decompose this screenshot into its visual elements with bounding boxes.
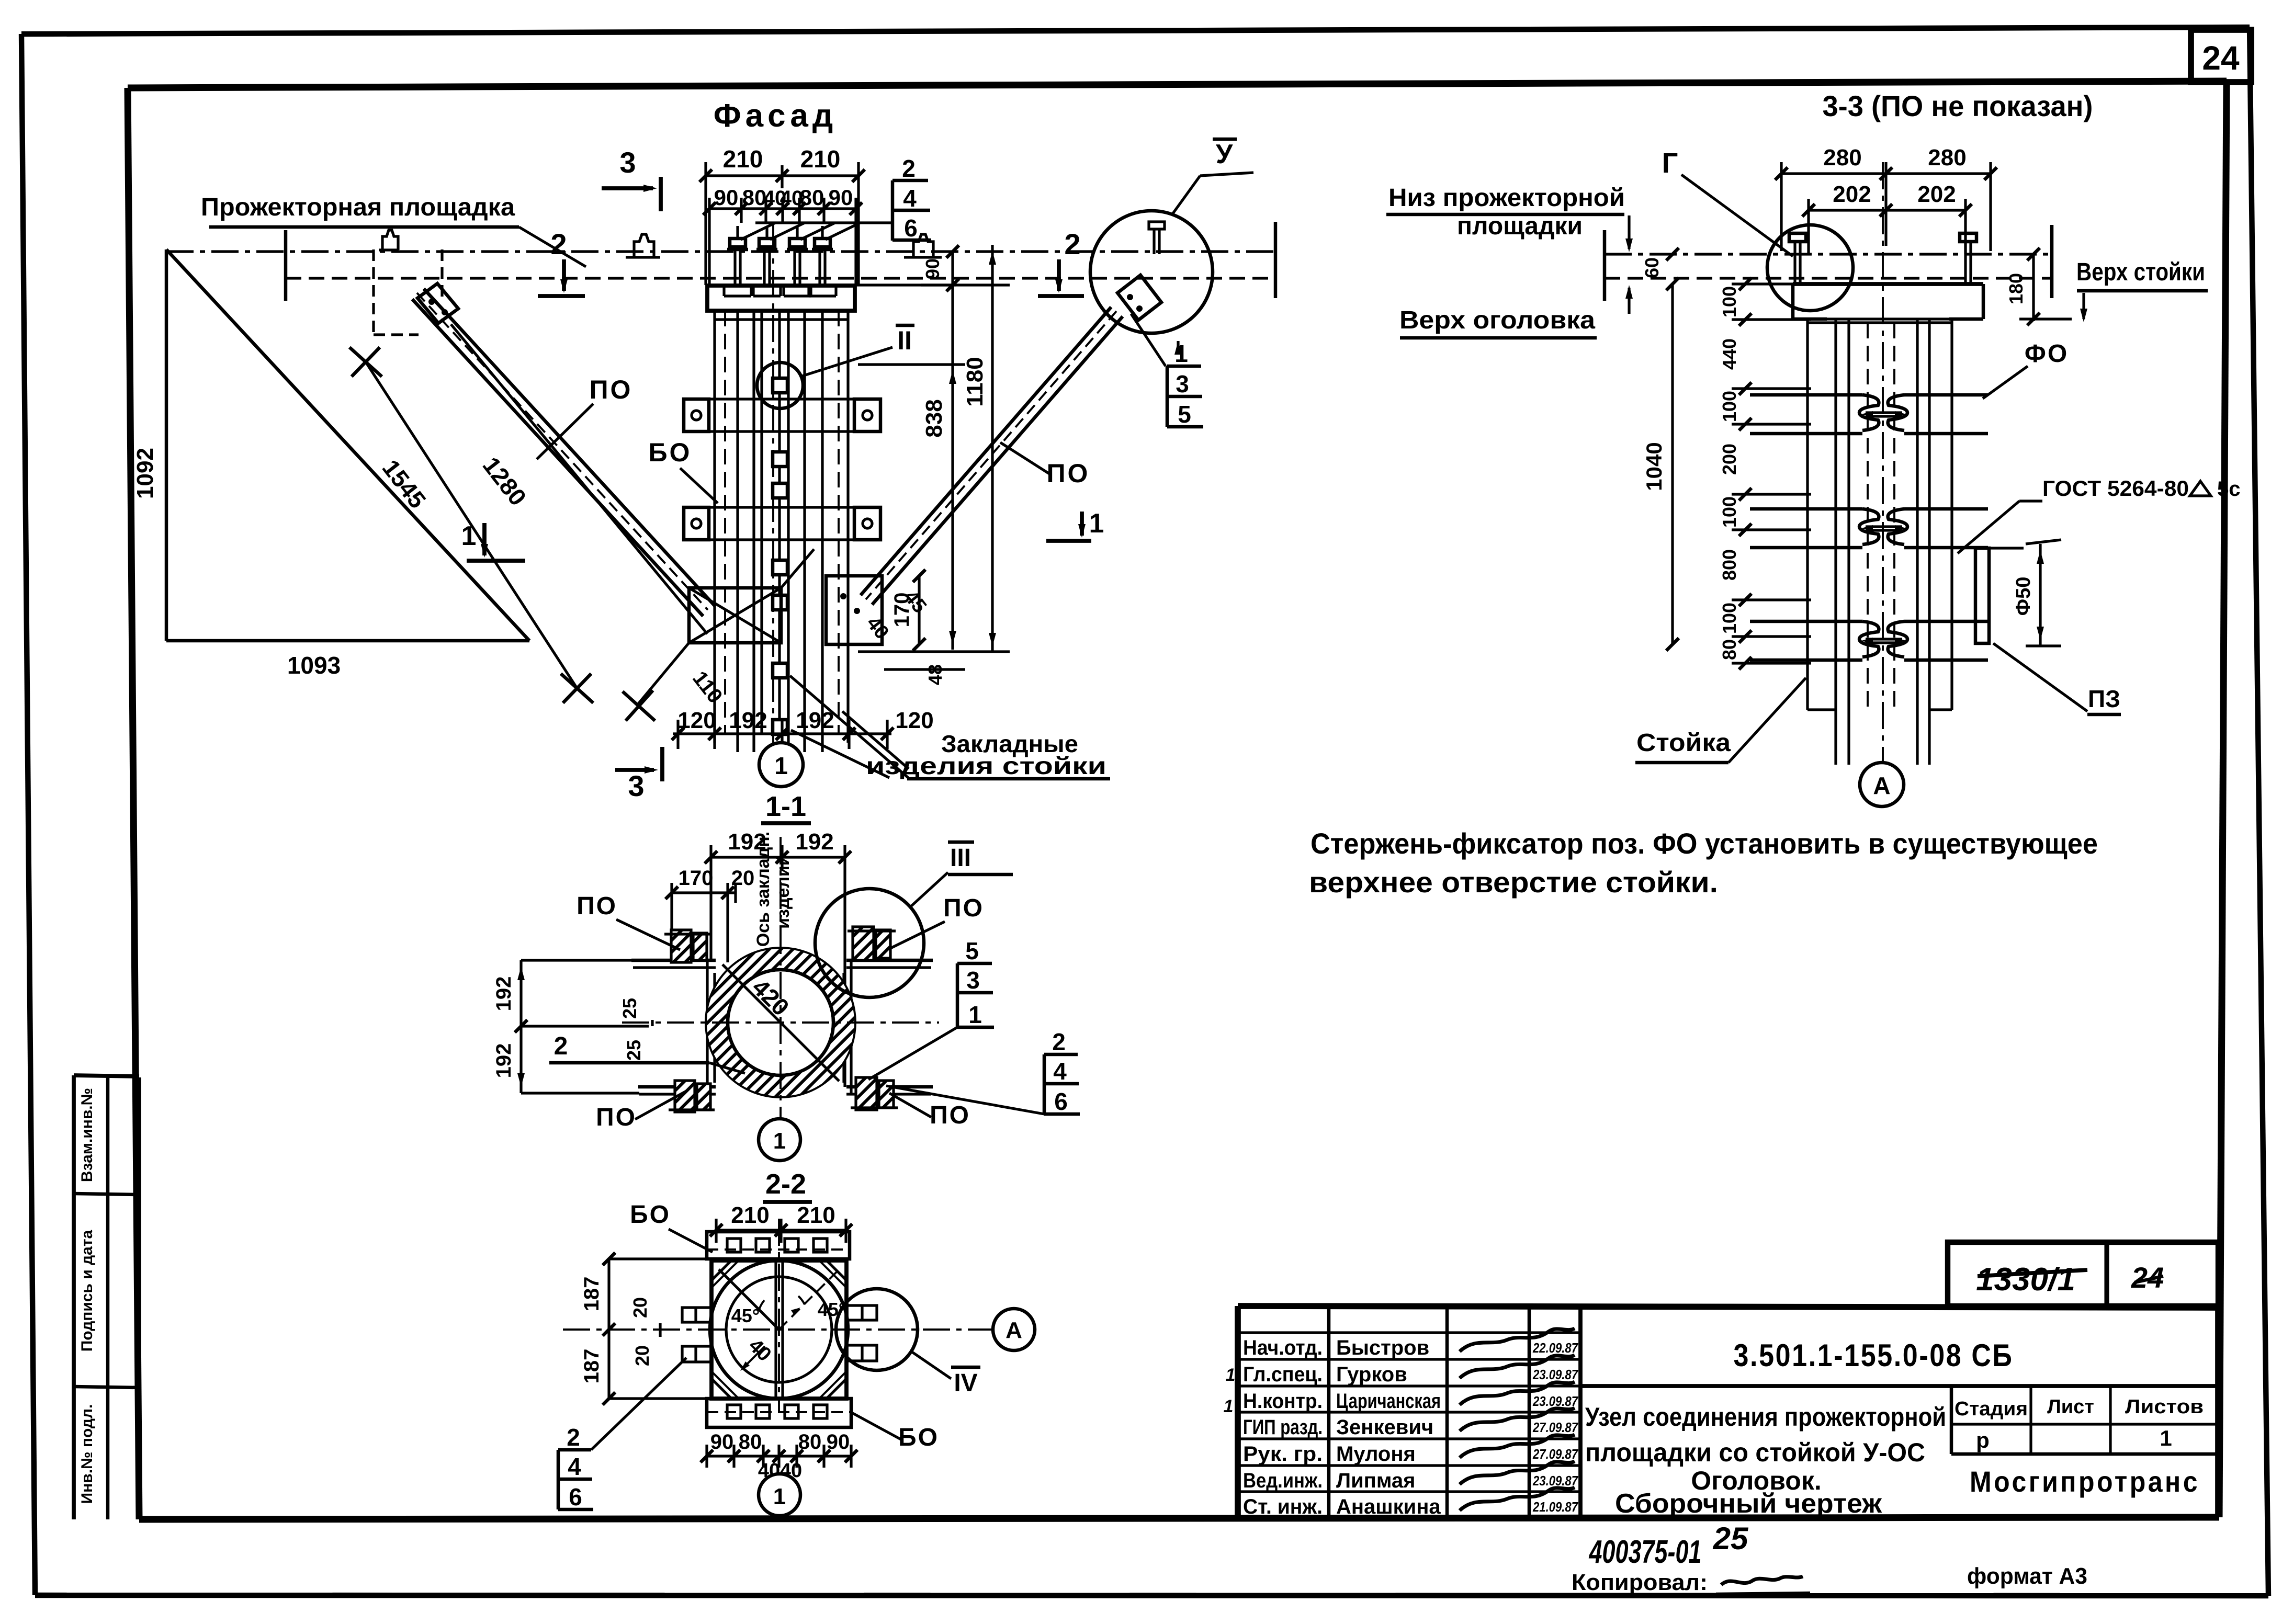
platform left extension tick: [284, 230, 288, 301]
circled 1 facade: [759, 743, 803, 787]
dim 202 202: [1809, 209, 1965, 211]
svg-text:1330/1: 1330/1: [1976, 1262, 2075, 1298]
svg-text:838: 838: [921, 399, 947, 437]
svg-text:800: 800: [1719, 549, 1740, 581]
tube inner circle: [728, 970, 833, 1075]
svg-text:А: А: [1006, 1318, 1022, 1343]
svg-text:1: 1: [773, 1484, 786, 1509]
svg-text:23.09.87: 23.09.87: [1532, 1393, 1578, 1409]
triangle of platform outline: [165, 249, 168, 641]
svg-text:25: 25: [1713, 1521, 1749, 1556]
rail symbol 3: [904, 234, 942, 257]
svg-text:100: 100: [1719, 496, 1740, 528]
svg-text:Фасад: Фасад: [714, 98, 837, 134]
svg-text:Анашкина: Анашкина: [1336, 1495, 1441, 1518]
svg-text:21.09.87: 21.09.87: [1532, 1499, 1578, 1515]
svg-text:Вед.инж.: Вед.инж.: [1243, 1469, 1323, 1492]
center axes 1-1: [780, 837, 782, 1117]
svg-text:6: 6: [1054, 1088, 1068, 1115]
stack label 2 4 6 top: [891, 180, 895, 241]
svg-text:80: 80: [739, 1430, 762, 1453]
45 deg diagonals: [719, 1269, 779, 1330]
platform hidden dashed line: [286, 277, 1275, 279]
svg-text:192: 192: [492, 1043, 515, 1078]
dim 280 280: [1781, 172, 1991, 175]
right fixing bar poz P3: [1975, 548, 1989, 643]
svg-text:23.09.87: 23.09.87: [1532, 1473, 1578, 1489]
svg-text:23.09.87: 23.09.87: [1532, 1367, 1578, 1382]
detail circle III: [815, 889, 924, 997]
svg-text:ПО: ПО: [590, 375, 633, 404]
right gusset plate: [826, 576, 882, 644]
svg-text:187: 187: [580, 1277, 603, 1312]
bolt cluster bottom-right: [856, 1077, 877, 1110]
svg-text:100: 100: [1719, 286, 1740, 317]
svg-text:80: 80: [798, 1430, 822, 1453]
label IV: [911, 1352, 951, 1379]
svg-text:1093: 1093: [287, 652, 341, 679]
bottom dims 90 80 80 90: [707, 1455, 851, 1457]
svg-text:20: 20: [731, 867, 755, 890]
cap bolts 3-3: [1793, 241, 1796, 284]
svg-text:Г: Г: [1662, 147, 1678, 179]
stage sheet columns: [1950, 1386, 1953, 1454]
svg-text:4: 4: [1053, 1058, 1067, 1085]
svg-text:Верх стойки: Верх стойки: [2076, 258, 2205, 286]
stack label 5 3 1: [956, 963, 959, 1027]
svg-text:3: 3: [619, 146, 636, 179]
svg-text:Взам.инв.№: Взам.инв.№: [78, 1088, 96, 1182]
sheet number box 24: [2191, 30, 2251, 82]
svg-text:24: 24: [2202, 39, 2240, 77]
svg-text:280: 280: [1823, 145, 1861, 171]
dim 187 187: [607, 1259, 610, 1399]
svg-text:ПО: ПО: [930, 1101, 970, 1129]
detail circle IV: [836, 1289, 918, 1370]
diameter 420 line and label: [722, 964, 839, 1081]
svg-text:Рук. гр.: Рук. гр.: [1243, 1443, 1323, 1466]
svg-text:верхнее отверстие стойки.: верхнее отверстие стойки.: [1309, 866, 1718, 899]
main square 2-2: [711, 1260, 846, 1399]
stack 2 4 6 bottom left: [557, 1450, 560, 1509]
rail symbol 1: [379, 230, 399, 250]
svg-text:1: 1: [968, 1001, 982, 1028]
tube circles 2-2: [710, 1260, 848, 1399]
section 1-1 dim 192 192: [711, 856, 845, 858]
svg-text:100: 100: [1719, 603, 1740, 634]
svg-text:120: 120: [677, 708, 716, 733]
anchor bolts on cap: [733, 249, 736, 286]
svg-text:Верх оголовка: Верх оголовка: [1399, 306, 1595, 334]
svg-text:120: 120: [895, 708, 933, 733]
bolt cluster top-left: [671, 930, 691, 962]
svg-text:440: 440: [1719, 338, 1740, 370]
svg-text:Копировал:: Копировал:: [1572, 1570, 1708, 1595]
tube center axis 3-3: [1882, 162, 1884, 785]
drawing frame: [128, 81, 2227, 88]
svg-text:90: 90: [710, 1430, 734, 1453]
dashed connection box left brace: [372, 249, 375, 335]
svg-text:25: 25: [623, 1040, 645, 1061]
svg-text:II: II: [897, 326, 912, 355]
svg-text:БО: БО: [649, 438, 692, 467]
fixator rod verticals: [774, 1262, 777, 1398]
svg-text:90: 90: [922, 258, 943, 279]
svg-text:202: 202: [1917, 181, 1956, 207]
vertical dimension 838: [951, 252, 954, 650]
corner weld triangles: [711, 1260, 731, 1280]
dim chain left of 3-3 column: [1671, 284, 1674, 644]
svg-text:80: 80: [800, 185, 824, 210]
right stubs 2-2: [845, 1305, 877, 1320]
chain ticks and rotated labels: [1732, 282, 1811, 285]
bottom dimension chain 120 192 192 120: [673, 732, 891, 735]
bolt inside detail circle V: [1153, 229, 1155, 254]
svg-text:22.09.87: 22.09.87: [1532, 1340, 1578, 1356]
svg-text:Стадия: Стадия: [1955, 1398, 2028, 1420]
left margin table Vzam.inv: [72, 1075, 76, 1519]
svg-text:2: 2: [550, 228, 567, 260]
left brace PO beam: [424, 289, 715, 606]
svg-text:3: 3: [628, 769, 644, 802]
svg-text:площадки: площадки: [1457, 212, 1583, 240]
svg-text:192: 192: [795, 829, 833, 855]
svg-text:ГОСТ 5264-80: ГОСТ 5264-80: [2042, 476, 2189, 501]
extension lines 3-3 top dims: [1780, 186, 1782, 251]
svg-text:1-1: 1-1: [765, 791, 806, 822]
svg-text:Царичанская: Царичанская: [1336, 1390, 1441, 1413]
bolt cluster bottom-left: [675, 1081, 695, 1112]
detail circle V top right: [1090, 211, 1213, 333]
svg-text:6: 6: [569, 1483, 582, 1511]
svg-text:У: У: [1216, 139, 1233, 169]
left gusset plate with cross: [689, 588, 781, 643]
section 2-2 dim 210 210: [716, 1229, 846, 1231]
svg-text:187: 187: [580, 1349, 603, 1384]
svg-text:170: 170: [679, 867, 714, 890]
svg-text:90: 90: [829, 185, 853, 210]
svg-text:200: 200: [1719, 444, 1740, 475]
leaders to zakladnye text: [790, 676, 908, 778]
svg-text:р: р: [1976, 1428, 1990, 1452]
svg-text:Ось закладн.: Ось закладн.: [753, 832, 773, 947]
detail circle II around top square: [757, 362, 803, 408]
svg-text:Подпись и дата: Подпись и дата: [78, 1230, 96, 1352]
right brace top plate: [1117, 275, 1161, 320]
title block outer: [1238, 1306, 2218, 1308]
svg-text:Ф50: Ф50: [2013, 577, 2035, 616]
svg-text:192: 192: [729, 708, 767, 733]
sheet outer border: [21, 27, 2250, 34]
dimension 170 rotated: [918, 576, 920, 644]
svg-text:Ст. инж.: Ст. инж.: [1243, 1495, 1323, 1518]
right brace PO beam: [861, 307, 1111, 595]
svg-text:ПО: ПО: [1047, 459, 1090, 488]
svg-text:Быстров: Быстров: [1336, 1336, 1429, 1359]
svg-text:Зенкевич: Зенкевич: [1336, 1416, 1433, 1439]
svg-text:80: 80: [1719, 639, 1740, 660]
svg-text:210: 210: [723, 145, 763, 173]
svg-text:60: 60: [1641, 257, 1663, 278]
svg-text:изделий: изделий: [773, 855, 793, 929]
svg-text:Липмая: Липмая: [1336, 1469, 1415, 1492]
svg-text:180: 180: [2005, 273, 2027, 304]
svg-text:2: 2: [554, 1032, 568, 1060]
svg-text:90: 90: [827, 1430, 850, 1453]
dimension 90 80 40 40 80 90: [709, 207, 856, 210]
svg-text:192: 192: [492, 976, 515, 1012]
svg-text:IV: IV: [954, 1369, 977, 1397]
svg-text:ПО: ПО: [943, 894, 984, 922]
stack label 1 3 5: [1166, 366, 1169, 427]
x-mark below left gusset: [623, 691, 655, 721]
center axes 2-2: [563, 1328, 992, 1331]
svg-text:2: 2: [1052, 1028, 1066, 1055]
tube wall hatched ring: [707, 949, 854, 1096]
leaders from bolts to 2-4-6 stack: [755, 221, 893, 224]
svg-text:Узел соединения прожекторной: Узел соединения прожекторной: [1585, 1402, 1946, 1432]
svg-text:Гурков: Гурков: [1336, 1363, 1407, 1386]
svg-text:1: 1: [1224, 1396, 1234, 1416]
svg-text:5: 5: [1178, 401, 1191, 428]
tube top edge line: [1807, 321, 1952, 324]
svg-text:Стержень-фиксатор поз. ФО уст: Стержень-фиксатор поз. ФО установить в с…: [1311, 827, 2098, 860]
axis circle A: [993, 1309, 1035, 1350]
svg-text:1: 1: [461, 521, 477, 551]
svg-text:БО: БО: [898, 1424, 939, 1451]
leader from brace plate to 135 stack: [1131, 314, 1166, 366]
section 1-1 dim 170 20: [672, 891, 736, 894]
svg-text:1040: 1040: [1642, 442, 1666, 491]
flange plates 1-1: [631, 959, 716, 962]
dimension line 1280 diagonal: [451, 324, 707, 634]
svg-text:3.501.1-155.0-08 СБ: 3.501.1-155.0-08 СБ: [1734, 1338, 2014, 1373]
svg-text:210: 210: [731, 1202, 769, 1228]
svg-text:БО: БО: [630, 1201, 671, 1229]
svg-text:Н.контр.: Н.контр.: [1243, 1390, 1323, 1413]
svg-text:2: 2: [902, 155, 916, 182]
embedded item squares: [773, 378, 787, 393]
label V with leader: [1173, 176, 1200, 213]
dim chain 192 192 left of 1-1: [519, 960, 522, 1093]
svg-text:Стойка: Стойка: [1636, 729, 1731, 757]
svg-text:1: 1: [2160, 1426, 2172, 1450]
svg-text:Мосгипротранс: Мосгипротранс: [1970, 1465, 2200, 1498]
svg-text:210: 210: [800, 145, 841, 173]
svg-text:ПЗ: ПЗ: [2088, 685, 2120, 712]
svg-text:Лист: Лист: [2047, 1396, 2094, 1418]
svg-text:100: 100: [1719, 391, 1740, 422]
svg-text:5с: 5с: [2217, 478, 2241, 501]
svg-text:45°: 45°: [731, 1305, 760, 1326]
svg-text:48: 48: [924, 664, 946, 685]
column center axis: [772, 225, 774, 764]
detail circle on cap connection: [1767, 225, 1853, 311]
svg-text:3: 3: [1176, 370, 1189, 398]
svg-text:4: 4: [568, 1453, 581, 1480]
svg-text:3-3 (ПО не показан): 3-3 (ПО не показан): [1823, 89, 2093, 122]
vertical dimension 1180: [991, 245, 993, 652]
dimension line 1545 diagonal: [366, 362, 577, 688]
svg-text:2: 2: [567, 1424, 580, 1451]
svg-text:III: III: [950, 844, 971, 872]
svg-text:4: 4: [903, 185, 917, 212]
column bottom extension lines: [736, 734, 739, 752]
platform end tick right: [1274, 222, 1278, 298]
left stubs 2-2: [682, 1308, 713, 1322]
column body verticals: [713, 311, 716, 734]
svg-text:ФО: ФО: [2025, 340, 2069, 368]
svg-text:ПО: ПО: [577, 892, 617, 920]
svg-text:Инв.№ подл.: Инв.№ подл.: [78, 1404, 96, 1504]
svg-text:210: 210: [797, 1202, 835, 1228]
circled 1 below 2-2: [759, 1474, 800, 1516]
circled A below 3-3: [1860, 763, 1904, 807]
svg-text:1: 1: [1226, 1365, 1236, 1385]
title block stamp grid: [1238, 1331, 1580, 1334]
svg-text:400375-01: 400375-01: [1588, 1534, 1701, 1570]
svg-text:формат А3: формат А3: [1967, 1563, 2087, 1589]
svg-text:6: 6: [904, 214, 918, 242]
rail symbol 2: [626, 234, 660, 257]
column side lugs: [684, 399, 709, 431]
svg-text:25: 25: [619, 998, 640, 1019]
column diaphragm lines: [684, 398, 880, 400]
clamp assemblies: [1750, 393, 1862, 397]
dim 180 right of cap: [2032, 254, 2035, 321]
svg-text:27.09.87: 27.09.87: [1532, 1446, 1578, 1462]
svg-text:Нач.отд.: Нач.отд.: [1243, 1336, 1323, 1359]
svg-text:1: 1: [773, 1128, 786, 1154]
svg-text:Мулоня: Мулоня: [1336, 1443, 1416, 1466]
platform lines 3-3: [1605, 253, 2052, 255]
svg-text:1: 1: [774, 752, 788, 779]
stack label 2 4 6 right: [1043, 1054, 1046, 1114]
svg-text:Прожекторная площадка: Прожекторная площадка: [201, 194, 515, 221]
svg-text:20: 20: [631, 1345, 653, 1366]
svg-text:Низ прожекторной: Низ прожекторной: [1388, 184, 1625, 212]
svg-text:Гл.спец.: Гл.спец.: [1243, 1363, 1323, 1386]
left brace top plate: [417, 283, 458, 323]
svg-text:1180: 1180: [962, 357, 988, 406]
svg-text:2-2: 2-2: [765, 1168, 806, 1200]
column cap plate: [707, 286, 855, 311]
cap plate 3-3: [1793, 282, 1983, 286]
svg-text:27.09.87: 27.09.87: [1532, 1419, 1578, 1435]
svg-text:Сборочный чертеж: Сборочный чертеж: [1615, 1489, 1882, 1519]
tube verticals 3-3: [1806, 319, 1809, 710]
bolt cluster top-right: [853, 927, 874, 960]
svg-text:ГИП разд.: ГИП разд.: [1243, 1416, 1323, 1439]
svg-text:90: 90: [714, 185, 739, 210]
cap bolt slots: [722, 287, 725, 296]
platform axis dash-dot line: [166, 250, 1275, 253]
tube section outer circle: [707, 949, 854, 1096]
bottom plate 2-2: [707, 1399, 851, 1427]
svg-text:А: А: [1873, 772, 1890, 799]
dim 50 right: [2039, 544, 2041, 646]
svg-text:192: 192: [796, 708, 834, 733]
circled 1 below 1-1: [759, 1119, 800, 1161]
svg-text:1: 1: [1089, 508, 1104, 539]
gusset diagonal tail: [637, 643, 689, 705]
svg-text:1092: 1092: [132, 448, 158, 499]
signatures scribbles: [1460, 1328, 1575, 1352]
dimension 210 210 top: [706, 174, 858, 177]
top plate 2-2: [707, 1232, 850, 1259]
svg-text:площадки со стойкой У-ОС: площадки со стойкой У-ОС: [1585, 1438, 1925, 1467]
svg-text:5: 5: [965, 937, 979, 964]
svg-text:3: 3: [966, 967, 980, 994]
archive number box 1330/1: [1948, 1242, 2218, 1306]
svg-text:Листов: Листов: [2125, 1396, 2204, 1418]
svg-text:202: 202: [1833, 181, 1871, 207]
svg-text:ПО: ПО: [596, 1104, 637, 1131]
tube lower part: [1834, 710, 1837, 765]
svg-text:изделия стойки: изделия стойки: [866, 752, 1106, 779]
svg-text:20: 20: [629, 1297, 651, 1318]
svg-text:2: 2: [1064, 228, 1080, 260]
svg-text:280: 280: [1928, 145, 1966, 171]
